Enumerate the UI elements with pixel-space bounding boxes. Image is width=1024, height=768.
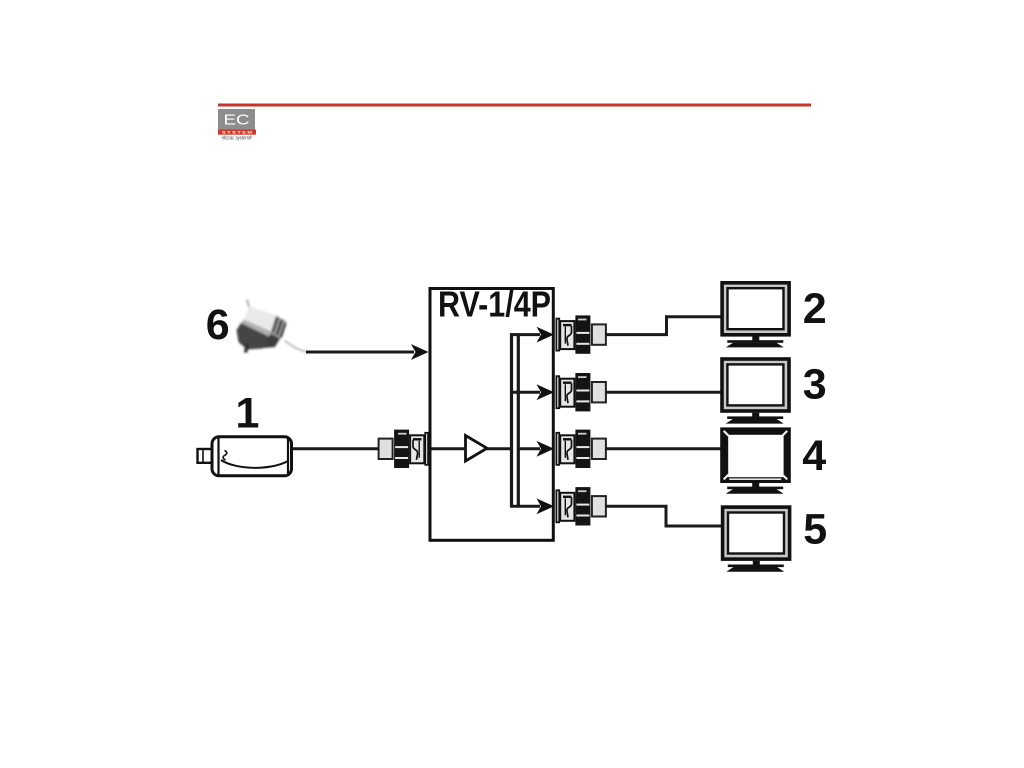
svg-text:4: 4: [802, 432, 826, 480]
svg-text:1: 1: [236, 390, 260, 438]
svg-text:S Y S T E M: S Y S T E M: [222, 131, 252, 135]
svg-text:6: 6: [206, 301, 230, 349]
svg-text:eltcrac system®: eltcrac system®: [222, 134, 253, 141]
svg-text:5: 5: [803, 505, 827, 553]
svg-text:EC: EC: [224, 112, 250, 129]
svg-text:2: 2: [803, 285, 827, 333]
svg-text:RV-1/4P: RV-1/4P: [438, 285, 551, 325]
svg-text:3: 3: [803, 361, 827, 409]
